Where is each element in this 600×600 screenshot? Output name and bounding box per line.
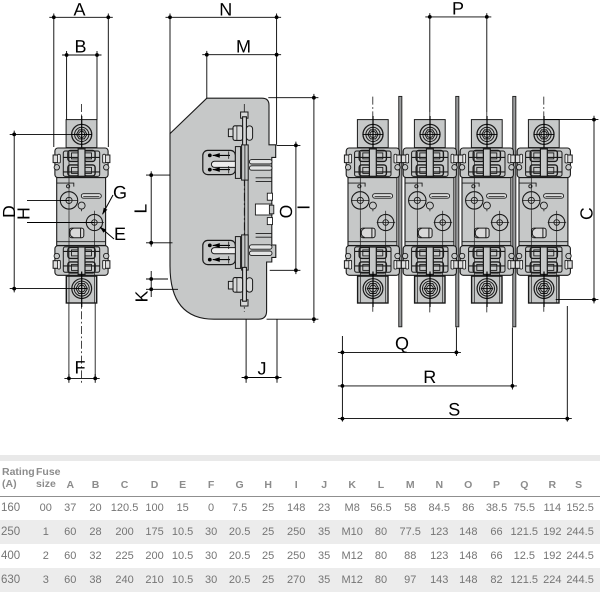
centre line — [81, 104, 83, 385]
pole 4 — [515, 116, 572, 307]
svg-text:N: N — [219, 0, 232, 20]
dim N — [169, 14, 171, 134]
dimension table — [0, 455, 600, 592]
svg-text:C: C — [577, 207, 597, 220]
terminal bolt M (top, side view) — [228, 112, 252, 151]
dim I — [268, 97, 318, 99]
centre line (side view) — [243, 104, 245, 312]
svg-text:L: L — [130, 204, 150, 214]
pole 3 — [458, 116, 515, 307]
dim B — [66, 51, 68, 120]
svg-text:K: K — [132, 290, 152, 302]
svg-text:E: E — [114, 224, 126, 244]
svg-text:I: I — [293, 205, 313, 210]
dim C — [544, 119, 599, 121]
fuse clip (top, side view) — [203, 145, 272, 180]
pole 2 — [401, 116, 458, 307]
pole 1 — [344, 116, 401, 307]
dim D — [10, 133, 92, 135]
svg-text:F: F — [75, 358, 86, 378]
fuse base pole (front view) — [53, 116, 110, 307]
svg-text:R: R — [423, 367, 436, 387]
svg-text:H: H — [14, 207, 34, 220]
dim F — [68, 374, 70, 383]
terminal bolt M (bottom, side view) — [228, 267, 252, 306]
svg-text:M: M — [236, 37, 251, 57]
dim P — [425, 16, 491, 18]
dim H — [27, 199, 69, 201]
svg-text:S: S — [448, 400, 460, 420]
fuse clip (bottom, side view) — [203, 235, 272, 270]
svg-text:Q: Q — [395, 333, 409, 353]
centre lines — [372, 97, 374, 314]
svg-text:G: G — [113, 183, 127, 203]
rail mount details — [256, 177, 272, 179]
dim J — [245, 319, 247, 383]
svg-text:J: J — [258, 358, 267, 378]
dim L — [146, 174, 170, 176]
svg-text:A: A — [73, 0, 85, 20]
svg-text:B: B — [74, 37, 86, 57]
side-view body outline — [170, 98, 276, 319]
dim K — [146, 278, 168, 280]
dim A — [53, 14, 55, 148]
svg-text:P: P — [452, 0, 464, 18]
dims Q R S — [341, 336, 343, 422]
busbar below — [68, 303, 70, 377]
dim M — [206, 51, 208, 98]
busbars — [399, 96, 402, 326]
dim O — [277, 144, 301, 146]
